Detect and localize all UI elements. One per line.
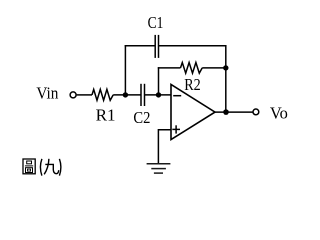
wire top feedback right segment [159,45,226,47]
output terminal circle [253,109,259,115]
wire node B up to R2 row [158,67,160,95]
ground [147,164,171,173]
caption close paren [59,159,61,176]
wire node A up to top feedback [124,45,126,95]
capacitor C2 [141,84,145,106]
wire non-inverting input to ground drop [158,130,171,164]
svg-text:Vin: Vin [36,84,58,103]
char tu middle bar [25,165,33,167]
svg-text:C2: C2 [133,108,150,127]
caption open paren [40,159,42,176]
capacitor C1 [155,35,158,58]
wire op-amp output to Vo terminal [215,111,253,113]
wire top feedback left segment [125,45,156,47]
char tu bottom box outer [26,168,33,173]
caption char nine stroke pie [44,159,49,175]
caption figure nine: char tu outer box [23,159,35,174]
resistor R1 [92,89,113,100]
svg-text:R2: R2 [184,75,201,94]
input terminal circle [70,92,76,98]
wire R1 to C2 [113,94,141,96]
node B junction dot [156,92,161,97]
wire Vin terminal to R1 [77,94,92,96]
output node junction dot [223,109,229,115]
op-amp U1 triangle [171,84,215,139]
op-amp plus sign [172,125,180,133]
svg-text:R1: R1 [96,106,116,125]
resistor R2 [181,63,203,74]
junction dot R2 feedback [223,65,228,70]
svg-text:Vo: Vo [270,104,288,123]
caption char nine horizontal hook stroke [45,164,58,173]
node A junction dot [123,92,128,97]
wire right vertical feedback down to output node [225,45,227,112]
char tu bottom box inner [28,169,31,171]
char tu top mouth [27,161,32,164]
op-amp minus sign [173,95,181,97]
svg-text:C1: C1 [148,13,164,32]
wire R2 row left segment [158,67,181,69]
wire C2 to op-amp inverting input [145,94,172,96]
wire R2 row right segment [202,67,226,69]
